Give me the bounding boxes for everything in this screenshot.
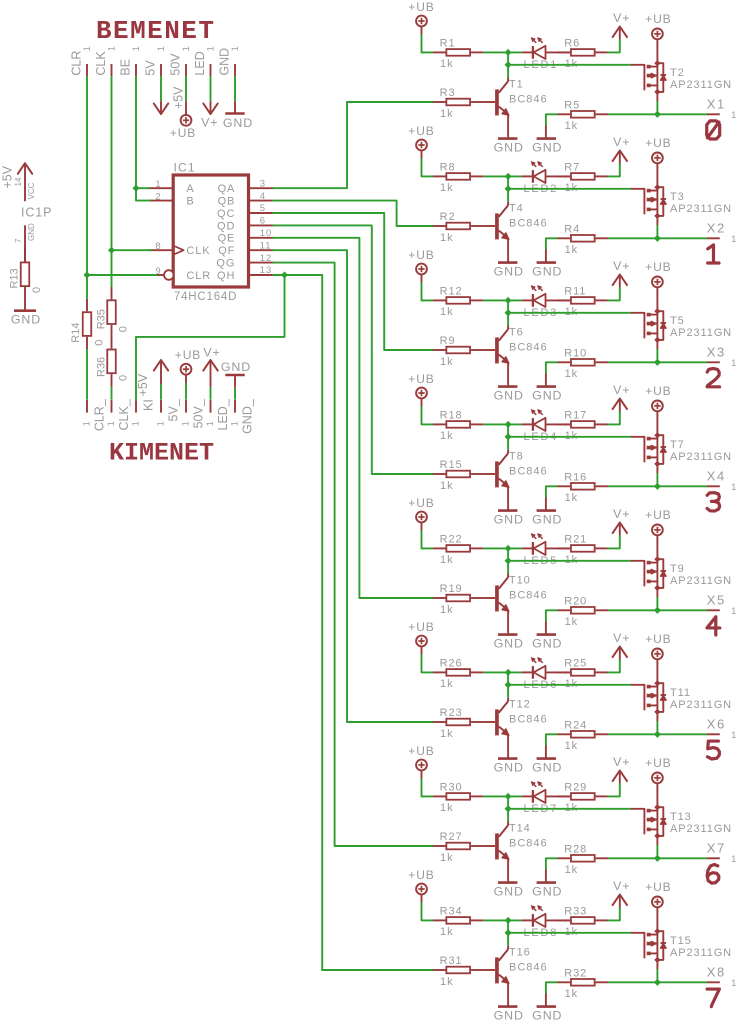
- LED LED7: [522, 782, 571, 815]
- svg-text:CLR: CLR: [186, 270, 211, 282]
- resistor R22 (1k): [433, 534, 483, 567]
- supply V+ arrow on LED_ pin: [203, 346, 220, 400]
- wire CLR to IC pin 9: [87, 274, 158, 276]
- header pin CLR: [69, 46, 92, 76]
- svg-text:IC1: IC1: [174, 161, 196, 175]
- svg-text:VCC: VCC: [27, 182, 36, 199]
- header pin CLK: [94, 46, 117, 76]
- LED LED5: [522, 534, 571, 567]
- svg-text:1k: 1k: [440, 926, 453, 938]
- svg-text:1: 1: [155, 179, 161, 190]
- wire +UB to R18: [422, 398, 434, 424]
- supply V+ arrow: [613, 383, 631, 411]
- svg-text:R2: R2: [440, 211, 456, 223]
- svg-text:R10: R10: [564, 347, 587, 359]
- supply +UB symbol: [408, 248, 434, 275]
- svg-text:T9: T9: [670, 563, 685, 575]
- transistor T10 BC846: [483, 561, 547, 635]
- svg-text:R11: R11: [564, 286, 586, 298]
- svg-text:4: 4: [260, 191, 266, 202]
- header pin CLR_: [82, 398, 107, 431]
- junction LED node: [505, 669, 512, 676]
- wire R6 to V+: [608, 39, 620, 52]
- wire LED node down to gate line: [507, 796, 509, 808]
- svg-text:1: 1: [731, 110, 737, 120]
- wire +UB to T9 source: [656, 535, 658, 559]
- resistor R24 (1k): [558, 719, 608, 752]
- wire T3 drain to X2: [656, 216, 658, 238]
- svg-text:14: 14: [14, 177, 23, 186]
- ground: [494, 387, 524, 403]
- svg-text:R35: R35: [95, 309, 107, 329]
- svg-text:BC846: BC846: [509, 961, 548, 973]
- svg-text:BE: BE: [118, 59, 132, 76]
- wire IC output to channel 3: [273, 213, 433, 350]
- svg-text:74HC164D: 74HC164D: [174, 291, 237, 303]
- junction X5: [654, 607, 661, 614]
- resistor R31 (1k): [433, 955, 483, 988]
- svg-text:1k: 1k: [440, 58, 453, 70]
- svg-text:0: 0: [118, 326, 130, 332]
- supply +UB symbol: [408, 744, 434, 771]
- svg-text:KI: KI: [142, 399, 156, 411]
- svg-text:LED_: LED_: [216, 398, 230, 430]
- svg-text:T3: T3: [670, 191, 685, 203]
- junction gate line: [505, 805, 512, 812]
- wire gate line: [508, 64, 632, 66]
- junction gate line: [505, 61, 512, 68]
- wire R28 to ground: [546, 858, 558, 882]
- supply V+ arrow: [613, 755, 631, 783]
- svg-text:0: 0: [118, 375, 130, 381]
- resistor R15 (1k): [433, 459, 483, 492]
- svg-text:R4: R4: [564, 223, 580, 235]
- svg-text:B: B: [186, 196, 194, 208]
- wire +UB to T3 source: [656, 163, 658, 187]
- svg-text:GND: GND: [532, 265, 562, 279]
- wire IC output to channel 2: [273, 201, 433, 226]
- svg-text:1: 1: [131, 46, 141, 51]
- svg-text:1k: 1k: [565, 368, 578, 380]
- svg-text:R27: R27: [440, 831, 463, 843]
- resistor R27 (1k): [433, 831, 483, 864]
- header pin 5V: [143, 46, 166, 76]
- header pin KI: [131, 399, 156, 426]
- ground: [494, 263, 524, 279]
- svg-text:R36: R36: [95, 357, 107, 377]
- transistor T13 AP2311GN: [632, 804, 732, 839]
- resistor R36 (0): [95, 336, 129, 386]
- wire R18 to LED node: [483, 423, 521, 425]
- svg-text:CLK: CLK: [94, 51, 108, 76]
- ground: [532, 759, 562, 775]
- svg-text:R7: R7: [564, 162, 580, 174]
- svg-text:GND: GND: [494, 885, 524, 899]
- wire T15 drain to X8: [656, 960, 658, 982]
- junction QH: [281, 271, 288, 278]
- supply V+ arrow: [613, 507, 631, 535]
- svg-text:R12: R12: [440, 286, 463, 298]
- svg-text:QH: QH: [217, 270, 235, 282]
- svg-text:+UB: +UB: [408, 0, 434, 14]
- wire R21 to V+: [608, 535, 620, 548]
- svg-text:GND: GND: [532, 1009, 562, 1023]
- svg-text:AP2311GN: AP2311GN: [670, 947, 732, 959]
- svg-text:1: 1: [230, 46, 240, 51]
- svg-text:BC846: BC846: [509, 837, 548, 849]
- svg-text:7: 7: [14, 238, 23, 243]
- wire IC output to channel 6: [273, 250, 433, 722]
- svg-text:R33: R33: [564, 906, 587, 918]
- wire 5V net: [160, 76, 162, 101]
- wire LED node down to gate line: [507, 548, 509, 560]
- junction gate line: [505, 185, 512, 192]
- svg-text:1: 1: [731, 854, 737, 864]
- wire LED node down to gate line: [507, 300, 509, 312]
- wire R26 to LED node: [483, 671, 521, 673]
- svg-text:X4: X4: [707, 469, 726, 484]
- svg-text:1: 1: [230, 421, 240, 426]
- svg-text:GND: GND: [532, 885, 562, 899]
- svg-text:X6: X6: [707, 717, 726, 732]
- svg-text:1k: 1k: [440, 678, 453, 690]
- ground: [532, 1007, 562, 1023]
- svg-text:1: 1: [731, 358, 737, 368]
- wire R10 to ground: [546, 362, 558, 386]
- svg-text:BC846: BC846: [509, 217, 548, 229]
- wire IC output to channel 7: [273, 263, 433, 846]
- svg-text:GND: GND: [494, 637, 524, 651]
- svg-text:+UB: +UB: [170, 126, 196, 140]
- svg-text:1k: 1k: [565, 740, 578, 752]
- svg-text:50V: 50V: [168, 53, 182, 76]
- svg-text:2: 2: [155, 191, 161, 202]
- resistor R28 (1k): [558, 843, 608, 876]
- svg-text:GND: GND: [494, 389, 524, 403]
- supply +5V arrow on 5V pin: [154, 86, 186, 114]
- resistor R9 (1k): [433, 335, 483, 368]
- wire +UB to T7 source: [656, 411, 658, 435]
- transistor T9 AP2311GN: [632, 556, 732, 591]
- svg-text:AP2311GN: AP2311GN: [670, 327, 732, 339]
- wire R24 to ground: [546, 734, 558, 758]
- resistor R4 (1k): [558, 223, 608, 256]
- svg-text:+UB: +UB: [645, 384, 671, 398]
- svg-text:1k: 1k: [440, 554, 453, 566]
- supply V+ arrow: [613, 631, 631, 659]
- wire gate line: [508, 808, 632, 810]
- wire gate line: [508, 188, 632, 190]
- svg-text:R3: R3: [440, 87, 456, 99]
- wire gate line: [508, 560, 632, 562]
- svg-text:BC846: BC846: [509, 93, 548, 105]
- svg-text:V+: V+: [613, 755, 630, 769]
- transistor T6 BC846: [483, 313, 547, 387]
- svg-text:T2: T2: [670, 67, 685, 79]
- wire LED net: [210, 76, 212, 101]
- svg-text:1: 1: [106, 421, 116, 426]
- svg-text:0: 0: [31, 287, 43, 293]
- wire 50V net: [185, 76, 187, 101]
- supply +UB symbol: [645, 880, 671, 907]
- supply +UB symbol: [408, 0, 434, 26]
- svg-text:+UB: +UB: [645, 12, 671, 26]
- wire +UB to R30: [422, 770, 434, 796]
- wire CLR net: [86, 76, 88, 299]
- wire R7 to V+: [608, 163, 620, 176]
- svg-text:R5: R5: [564, 99, 580, 111]
- wire R16 to ground: [546, 486, 558, 510]
- LED LED6: [522, 658, 571, 691]
- svg-text:+UB: +UB: [645, 632, 671, 646]
- wire R12 to LED node: [483, 299, 521, 301]
- svg-text:GND: GND: [494, 141, 524, 155]
- svg-text:GND: GND: [11, 313, 41, 327]
- IC1 74HC164D: [148, 161, 273, 303]
- junction LED node: [505, 173, 512, 180]
- wire +UB to R1: [422, 26, 434, 52]
- digit 0: [707, 121, 720, 139]
- svg-text:T8: T8: [509, 450, 524, 462]
- supply +UB symbol: [408, 868, 434, 895]
- net X1 output: [608, 97, 737, 121]
- wire T5 drain to X3: [656, 340, 658, 362]
- svg-text:AP2311GN: AP2311GN: [670, 79, 732, 91]
- svg-text:1k: 1k: [440, 802, 453, 814]
- svg-text:CLR: CLR: [69, 51, 83, 76]
- transistor T1 BC846: [483, 65, 547, 139]
- svg-text:1k: 1k: [440, 604, 453, 616]
- wire +UB to R22: [422, 522, 434, 548]
- resistor R18 (1k): [433, 410, 483, 443]
- svg-text:R26: R26: [440, 658, 463, 670]
- wire +UB to T15 source: [656, 907, 658, 931]
- svg-text:AP2311GN: AP2311GN: [670, 203, 732, 215]
- transistor T7 AP2311GN: [632, 432, 732, 467]
- resistor R29 (1k): [558, 782, 608, 815]
- supply +UB symbol: [645, 756, 671, 783]
- svg-text:1k: 1k: [440, 480, 453, 492]
- resistor R16 (1k): [558, 471, 608, 504]
- transistor T3 AP2311GN: [632, 184, 732, 219]
- resistor R13 (0): [9, 249, 44, 299]
- svg-text:BC846: BC846: [509, 713, 548, 725]
- resistor R10 (1k): [558, 347, 608, 380]
- svg-text:5V: 5V: [143, 60, 157, 76]
- svg-text:V+: V+: [613, 507, 630, 521]
- svg-text:R17: R17: [564, 410, 587, 422]
- svg-text:R6: R6: [564, 38, 580, 50]
- ground: [532, 883, 562, 899]
- svg-text:+UB: +UB: [645, 508, 671, 522]
- svg-text:V+: V+: [203, 346, 220, 360]
- svg-text:LED: LED: [193, 51, 207, 75]
- svg-text:A: A: [186, 183, 194, 195]
- svg-text:BC846: BC846: [509, 589, 548, 601]
- resistor R34 (1k): [433, 906, 483, 939]
- svg-text:1k: 1k: [440, 108, 453, 120]
- supply V+ arrow: [613, 135, 631, 163]
- ground: [494, 759, 524, 775]
- transistor T4 BC846: [483, 189, 547, 263]
- header pin 5V_: [156, 398, 181, 426]
- junction X8: [654, 979, 661, 986]
- wire IC output to channel 5: [273, 238, 433, 598]
- wire IC QH to channel 8: [273, 275, 433, 970]
- svg-text:1: 1: [131, 421, 141, 426]
- svg-text:1: 1: [106, 46, 116, 51]
- svg-text:V+: V+: [613, 259, 630, 273]
- svg-text:R14: R14: [70, 323, 82, 343]
- svg-text:T14: T14: [509, 822, 531, 834]
- header pin 50V: [168, 46, 191, 76]
- wire GND net: [234, 76, 236, 101]
- svg-text:GND: GND: [494, 1009, 524, 1023]
- ground on GND_ pin: [221, 360, 251, 400]
- wire R11 to V+: [608, 287, 620, 300]
- wire T13 drain to X7: [656, 836, 658, 858]
- svg-text:R29: R29: [564, 782, 587, 794]
- resistor R19 (1k): [433, 583, 483, 616]
- wire R14 to CLR_ pin: [86, 349, 88, 400]
- junction LED node: [505, 545, 512, 552]
- svg-text:X7: X7: [707, 841, 726, 856]
- svg-text:V+: V+: [613, 11, 630, 25]
- resistor R14 (0): [70, 299, 106, 349]
- junction CLR: [83, 271, 90, 278]
- wire R1 to LED node: [483, 51, 521, 53]
- svg-text:1: 1: [731, 730, 737, 740]
- svg-text:T16: T16: [509, 946, 531, 958]
- svg-text:+UB: +UB: [408, 868, 434, 882]
- svg-text:R32: R32: [564, 967, 587, 979]
- svg-text:3: 3: [260, 178, 266, 189]
- svg-text:R24: R24: [564, 719, 587, 731]
- header pin GND_: [230, 398, 255, 434]
- supply +UB symbol: [175, 348, 201, 375]
- svg-text:GND: GND: [532, 637, 562, 651]
- resistor R1 (1k): [433, 38, 483, 71]
- wire LED node down to gate line: [507, 52, 509, 64]
- junction LED node: [505, 49, 512, 56]
- svg-text:1k: 1k: [440, 976, 453, 988]
- wire QH to KI pin: [136, 275, 285, 400]
- svg-text:QF: QF: [218, 245, 235, 257]
- wire LED node down to gate line: [507, 672, 509, 684]
- svg-text:AP2311GN: AP2311GN: [670, 451, 732, 463]
- resistor R35 (0): [95, 287, 129, 337]
- svg-text:+UB: +UB: [408, 744, 434, 758]
- svg-text:+5V: +5V: [171, 86, 185, 109]
- header pin CLK_: [106, 398, 131, 430]
- digit 4: [707, 617, 720, 635]
- wire T7 drain to X4: [656, 464, 658, 486]
- header pin LED: [193, 46, 216, 76]
- svg-text:BC846: BC846: [509, 341, 548, 353]
- header pin BE: [118, 46, 141, 76]
- svg-text:R13: R13: [9, 268, 21, 288]
- svg-text:GND_: GND_: [241, 398, 255, 434]
- svg-text:1: 1: [731, 234, 737, 244]
- svg-text:1k: 1k: [440, 728, 453, 740]
- svg-text:QC: QC: [217, 208, 235, 220]
- wire R13 to ground: [24, 299, 26, 310]
- wire R5 to ground: [546, 114, 558, 138]
- svg-text:T6: T6: [509, 326, 524, 338]
- svg-text:V+: V+: [613, 631, 630, 645]
- resistor R25 (1k): [558, 658, 608, 691]
- svg-text:BC846: BC846: [509, 465, 548, 477]
- svg-text:+5V: +5V: [1, 165, 15, 188]
- wire T11 drain to X6: [656, 712, 658, 734]
- LED LED1: [522, 38, 571, 71]
- IC1P GND pin 7: [14, 223, 36, 262]
- svg-text:1: 1: [731, 606, 737, 616]
- transistor T8 BC846: [483, 437, 547, 511]
- wire +UB to R8: [422, 150, 434, 176]
- svg-text:T10: T10: [509, 574, 531, 586]
- ground: [11, 311, 41, 327]
- svg-text:V+: V+: [201, 115, 218, 129]
- junction CLK: [108, 247, 115, 254]
- junction X7: [654, 855, 661, 862]
- svg-text:T5: T5: [670, 315, 685, 327]
- supply +UB symbol: [645, 12, 671, 39]
- svg-text:GND: GND: [27, 223, 36, 241]
- supply +UB symbol: [645, 632, 671, 659]
- supply +UB symbol: [408, 496, 434, 523]
- ground: [494, 1007, 524, 1023]
- net X2 output: [608, 221, 737, 245]
- svg-text:GND: GND: [532, 761, 562, 775]
- svg-text:10: 10: [260, 228, 272, 239]
- svg-text:1: 1: [205, 421, 215, 426]
- transistor T14 BC846: [483, 809, 547, 883]
- svg-text:R25: R25: [564, 658, 587, 670]
- ground: [223, 114, 253, 131]
- svg-text:R16: R16: [564, 471, 587, 483]
- svg-text:8: 8: [155, 241, 161, 252]
- svg-text:GND: GND: [494, 265, 524, 279]
- supply V+ arrow on LED pin: [201, 101, 218, 129]
- supply +UB symbol: [645, 384, 671, 411]
- junction LED node: [505, 297, 512, 304]
- svg-text:R34: R34: [440, 906, 463, 918]
- wire T9 drain to X5: [656, 588, 658, 610]
- svg-text:T1: T1: [509, 78, 524, 90]
- svg-text:BEMENET: BEMENET: [96, 16, 215, 46]
- svg-text:GND: GND: [221, 360, 251, 374]
- ground: [532, 387, 562, 403]
- wire BE to IC pin 1: [136, 187, 150, 189]
- svg-text:50V_: 50V_: [192, 398, 206, 428]
- supply +UB on 50V pin: [185, 101, 187, 115]
- ground on GND pin: [234, 101, 236, 113]
- LED LED2: [522, 162, 571, 195]
- svg-text:1: 1: [205, 46, 215, 51]
- junction gate line: [505, 929, 512, 936]
- supply +UB symbol: [645, 260, 671, 287]
- wire CLK to IC pin 8: [112, 249, 153, 251]
- svg-text:CLK: CLK: [186, 245, 210, 257]
- junction BE: [132, 185, 139, 192]
- junction LED node: [505, 917, 512, 924]
- svg-text:1: 1: [156, 46, 166, 51]
- header pin LED_: [205, 398, 230, 430]
- net X4 output: [608, 469, 737, 493]
- wire BE to IC pin 2: [136, 188, 150, 200]
- net X3 output: [608, 345, 737, 369]
